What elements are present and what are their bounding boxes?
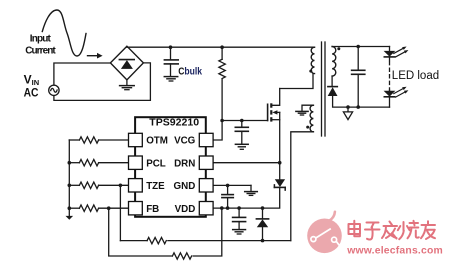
svg-text:www.elecfans.com: www.elecfans.com: [346, 245, 443, 256]
svg-text:AC: AC: [24, 86, 39, 100]
svg-text:Cbulk: Cbulk: [178, 66, 202, 77]
svg-text:TPS92210: TPS92210: [149, 117, 199, 128]
svg-text:Input: Input: [30, 34, 52, 45]
svg-text:PCL: PCL: [146, 158, 166, 169]
svg-text:LED load: LED load: [392, 70, 439, 82]
svg-text:TZE: TZE: [146, 181, 165, 192]
svg-text:OTM: OTM: [146, 136, 168, 147]
svg-text:Current: Current: [25, 45, 56, 56]
svg-text:VCG: VCG: [174, 136, 196, 147]
svg-text:GND: GND: [174, 181, 196, 192]
svg-text:DRN: DRN: [174, 158, 195, 169]
svg-text:FB: FB: [146, 204, 159, 215]
svg-text:VDD: VDD: [175, 204, 196, 215]
